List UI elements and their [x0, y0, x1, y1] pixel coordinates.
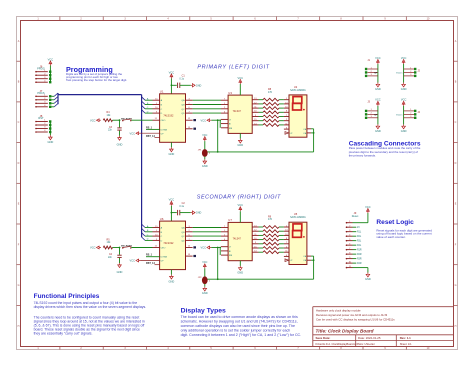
svg-text:RST_14: RST_14 — [146, 262, 155, 265]
svg-text:RS_1: RS_1 — [146, 254, 153, 257]
resistor pull-up body — [103, 246, 112, 249]
svg-text:0.1u: 0.1u — [179, 78, 184, 81]
svg-text:GND: GND — [202, 164, 208, 168]
svg-text:R3R: R3R — [357, 259, 362, 261]
svg-text:GND: GND — [375, 129, 381, 133]
ground below capacitor — [118, 263, 122, 267]
U6 left pins A-D — [153, 227, 160, 229]
svg-text:2: 2 — [410, 71, 411, 73]
power VCC above J2 — [402, 60, 405, 65]
svg-text:Rev: 1.1: Rev: 1.1 — [400, 336, 411, 340]
svg-text:Hardware only clock display mo: Hardware only clock display module — [316, 308, 361, 312]
J9 pin 10 net R4R — [347, 262, 353, 264]
svg-text:VCC: VCC — [238, 203, 244, 207]
svg-text:VCC: VCC — [90, 118, 96, 122]
ground below J3 — [376, 124, 380, 128]
svg-text:RBI: RBI — [229, 255, 233, 257]
wire junction to capacitor C1 — [171, 84, 176, 86]
U3 segment output pins — [252, 99, 258, 101]
svg-text:C: C — [455, 121, 457, 124]
display U2 pins — [284, 99, 289, 101]
seven segment display U2 — [289, 95, 307, 137]
svg-text:U3: U3 — [228, 91, 232, 95]
wire U5 CA pins to return — [311, 255, 314, 257]
svg-text:VCC: VCC — [365, 205, 371, 209]
svg-text:3: 3 — [371, 74, 372, 76]
junction blanking net — [217, 119, 219, 121]
svg-text:common cathode displays can al: common cathode displays can also be used… — [181, 324, 295, 328]
U1 lower left pins with net labels — [146, 128, 160, 130]
svg-text:VCC: VCC — [90, 246, 96, 250]
svg-text:CEO: CEO — [161, 120, 166, 122]
U6 pin 11 count input — [153, 247, 160, 249]
svg-text:11: 11 — [349, 266, 351, 268]
border grid ticks top/bottom — [59, 17, 61, 21]
svg-text:GND: GND — [169, 279, 175, 283]
svg-text:Date: 2022-01-25: Date: 2022-01-25 — [358, 336, 381, 340]
wire J7 pads to bus entries — [51, 95, 54, 97]
wire junction down to jumper net — [217, 120, 219, 152]
junction step net — [119, 119, 121, 121]
U1 left pins A-D — [153, 99, 160, 101]
junction return and blanking net — [217, 151, 219, 153]
svg-text:C: C — [18, 121, 20, 124]
svg-text:Display Types: Display Types — [181, 308, 226, 315]
svg-text:only additional operation is t: only additional operation is to set the … — [181, 328, 291, 332]
wire capacitor C2 to GND flag — [180, 212, 191, 214]
svg-text:GND: GND — [117, 143, 123, 147]
wire JP2 to GND — [204, 284, 206, 287]
svg-text:GND: GND — [375, 87, 381, 91]
svg-text:CEO: CEO — [161, 248, 166, 250]
svg-text:VCC: VCC — [375, 56, 381, 60]
svg-text:VCC: VCC — [401, 98, 407, 102]
svg-text:Reset Logic: Reset Logic — [376, 219, 414, 226]
svg-text:D: D — [18, 162, 20, 165]
svg-text:VCC: VCC — [202, 261, 207, 264]
svg-text:2: 2 — [410, 113, 411, 115]
wire switch to U6 pin 11 — [131, 247, 152, 249]
svg-text:3: 3 — [349, 230, 350, 232]
svg-text:QD: QD — [181, 113, 185, 115]
svg-text:3: 3 — [410, 116, 411, 118]
svg-text:RST: RST — [38, 116, 44, 120]
wire linking U7 blanking pins — [219, 247, 221, 255]
wire VCC to U1 pin 5 — [170, 79, 172, 94]
wire linking U3 blanking pins — [219, 119, 221, 127]
wire resistor to junction — [113, 119, 120, 121]
U7 ground pin — [239, 261, 241, 266]
svg-text:Save Date:: Save Date: — [316, 336, 331, 340]
U6 right pins QA-QD — [186, 227, 193, 229]
svg-text:U7: U7 — [228, 218, 232, 222]
capacitor C2 0.1u — [177, 210, 179, 215]
svg-text:QC: QC — [181, 236, 185, 238]
svg-text:GND: GND — [196, 212, 202, 215]
svg-text:RST_14: RST_14 — [146, 135, 155, 138]
svg-text:H: H — [455, 325, 457, 328]
U3 lamp-test blanking pins — [221, 118, 228, 120]
bus horizontal main — [58, 94, 142, 96]
svg-text:1: 1 — [371, 109, 372, 111]
wire VCC to J6 pads — [49, 66, 51, 83]
svg-text:74LS192: 74LS192 — [163, 242, 174, 245]
svg-text:Can be used with CC displays b: Can be used with CC displays by swapping… — [316, 318, 395, 322]
svg-text:GND: GND — [202, 291, 208, 295]
wire resistor to junction — [113, 247, 120, 249]
bus entries to U6 inputs — [142, 224, 145, 227]
junction CA net — [313, 132, 315, 134]
svg-text:Extern: Extern — [396, 71, 403, 74]
wire VCC to U3 — [239, 84, 241, 95]
svg-text:U6: U6 — [160, 217, 164, 221]
wire U2 CA pins to return — [311, 128, 314, 130]
power VCC above U6 — [170, 201, 173, 206]
U5 digit 8 graphic — [293, 224, 302, 237]
svg-text:Functional Principles: Functional Principles — [34, 293, 100, 300]
wire J9 bottom pin to GND — [353, 267, 368, 269]
svg-text:R4L: R4L — [357, 245, 362, 247]
svg-text:8: 8 — [349, 252, 350, 254]
wire CA return to jumper JP1 — [207, 151, 313, 153]
ground below JP2 — [203, 287, 207, 291]
svg-text:GND: GND — [169, 152, 175, 156]
wire JP1 to GND — [204, 157, 206, 160]
svg-text:5: 5 — [349, 239, 350, 241]
wire switch to U1 pin 11 — [131, 119, 152, 121]
ground below capacitor — [118, 136, 122, 140]
svg-text:1: 1 — [410, 67, 411, 69]
svg-text:R1R: R1R — [357, 250, 362, 252]
counter IC U1 74LS192 — [160, 94, 186, 143]
power VCC above U1 — [170, 74, 173, 79]
wire CA return to jumper JP2 — [207, 278, 313, 280]
svg-text:VCC: VCC — [401, 56, 407, 60]
svg-text:Size: USLetter: Size: USLetter — [358, 342, 375, 346]
svg-text:SA05-11SRWA: SA05-11SRWA — [290, 89, 306, 92]
U6 lower left pins with net labels — [146, 256, 160, 258]
counter IC U6 74LS192 — [160, 221, 186, 270]
ground below J1 — [376, 83, 380, 87]
capacitor C1 0.1u — [177, 83, 179, 88]
svg-text:they are essentially "carry ou: they are essentially "carry out" signals… — [34, 332, 93, 336]
svg-text:470: 470 — [268, 91, 273, 94]
solder jumper JP1 — [203, 137, 206, 142]
svg-text:R2L: R2L — [357, 236, 362, 238]
svg-text:VCC: VCC — [169, 198, 175, 202]
svg-text:VCC: VCC — [375, 98, 381, 102]
power VCC for J6 — [49, 61, 52, 66]
power VCC above U7 — [239, 207, 242, 212]
svg-text:GND: GND — [237, 271, 243, 275]
svg-text:display drivers which then sho: display drivers which then show the valu… — [34, 305, 147, 309]
wire VCC to U6 pin 5 — [170, 206, 172, 221]
svg-text:SECONDARY (RIGHT) DIGIT: SECONDARY (RIGHT) DIGIT — [197, 195, 281, 201]
wire bus entries to U6 pins A-D — [145, 227, 153, 229]
wire capacitor C1 to GND flag — [180, 84, 191, 86]
U7 segment output pins — [252, 226, 258, 228]
U7 left input pins — [221, 227, 228, 229]
svg-text:GND: GND — [196, 84, 202, 87]
U5 lamp test arrow pin — [285, 259, 289, 262]
svg-text:1: 1 — [410, 109, 411, 111]
svg-text:3: 3 — [410, 74, 411, 76]
svg-text:0.1u: 0.1u — [179, 205, 184, 208]
svg-text:QD: QD — [181, 240, 185, 242]
power VCC above J3 — [377, 101, 380, 106]
power VCC above J4 — [402, 101, 405, 106]
bus entries to U1 inputs — [142, 97, 145, 100]
svg-text:22n: 22n — [108, 256, 113, 259]
ground below J9 — [366, 273, 370, 277]
junction step net — [119, 247, 121, 249]
svg-text:H: H — [18, 325, 20, 328]
J9 pin 2 net 23 — [347, 226, 353, 228]
svg-text:74LS47: 74LS47 — [233, 110, 242, 113]
svg-text:7: 7 — [349, 248, 350, 250]
svg-text:VCC: VCC — [130, 131, 136, 135]
wire bus entries to U1 pins A-D — [145, 99, 153, 101]
svg-text:4: 4 — [349, 234, 350, 236]
svg-text:470: 470 — [268, 218, 273, 221]
U7 lamp-test blanking pins — [221, 246, 228, 248]
svg-text:10: 10 — [349, 261, 351, 263]
svg-text:GND: GND — [237, 143, 243, 147]
U1 pin 11 count input — [153, 119, 160, 121]
svg-text:Reset: Reset — [352, 215, 359, 218]
svg-text:9: 9 — [349, 257, 350, 259]
svg-text:QB: QB — [181, 105, 185, 107]
svg-text:VCC: VCC — [238, 76, 244, 80]
svg-text:G: G — [455, 284, 457, 287]
wire VCC to J9 pin 1 — [367, 213, 369, 223]
J9 pin 9 net R3R — [347, 258, 353, 260]
svg-text:6: 6 — [349, 243, 350, 245]
svg-text:GND: GND — [48, 140, 54, 144]
J9 pin 3 net R1L — [347, 231, 353, 233]
ground below J2 — [402, 83, 406, 87]
ground below J8 — [49, 135, 53, 139]
svg-text:VCC: VCC — [130, 259, 136, 263]
svg-text:Title: Clock Display Board: Title: Clock Display Board — [316, 328, 374, 333]
junction blanking net — [217, 247, 219, 249]
svg-text:GND: GND — [401, 87, 407, 91]
resistor pull-up body — [103, 119, 112, 122]
seven segment display U5 — [289, 222, 307, 264]
power flag GND right of C1 — [191, 84, 195, 87]
svg-text:Extern: Extern — [396, 113, 403, 116]
junction return and blanking net — [217, 278, 219, 280]
svg-text:U5: U5 — [294, 212, 298, 216]
svg-text:3: 3 — [371, 116, 372, 118]
svg-text:RS_1: RS_1 — [146, 126, 153, 129]
U1 ground pin — [170, 142, 172, 147]
svg-text:22n: 22n — [108, 129, 113, 132]
svg-text:74LS47: 74LS47 — [233, 238, 242, 241]
title block frame — [313, 306, 454, 308]
U3 left input pins — [221, 99, 228, 101]
U6 ground pin — [170, 270, 172, 275]
svg-text:G: G — [18, 284, 20, 287]
svg-text:1: 1 — [371, 67, 372, 69]
svg-text:VCC: VCC — [202, 134, 207, 137]
svg-text:QA: QA — [181, 99, 185, 102]
svg-text:DOWN: DOWN — [161, 129, 168, 131]
svg-text:the primary forwards.: the primary forwards. — [349, 153, 376, 157]
svg-text:value of each counter.: value of each counter. — [376, 235, 406, 239]
U1 carry borrow pins with net labels — [186, 119, 193, 121]
svg-text:digit. Connecting it between 1: digit. Connecting it between 1 and 2 ("H… — [181, 333, 302, 337]
svg-text:2: 2 — [371, 113, 372, 115]
svg-text:R4R: R4R — [357, 263, 362, 265]
svg-text:1: 1 — [349, 221, 350, 223]
J9 pin 8 net R2R — [347, 253, 353, 255]
svg-text:QC: QC — [181, 109, 185, 111]
junction CA net — [313, 259, 315, 261]
display U5 pins — [284, 226, 289, 228]
svg-text:VCC: VCC — [201, 118, 207, 122]
wires U6 outputs to U7 inputs — [193, 227, 221, 229]
svg-text:2: 2 — [349, 225, 350, 227]
bus vertical main — [141, 95, 143, 238]
J9 pin 6 net R4L — [347, 244, 353, 246]
svg-text:2: 2 — [371, 71, 372, 73]
junction at U6 VCC — [171, 212, 173, 214]
power VCC above U3 — [239, 80, 242, 85]
svg-text:schematic. However by swapping: schematic. However by swapping out U1 an… — [181, 320, 298, 324]
J9 pin 5 net R3L — [347, 240, 353, 242]
wire J8 pads to GND — [49, 122, 51, 136]
U6 carry borrow pins with net labels — [186, 247, 193, 249]
wire junction down to jumper net — [217, 248, 219, 280]
U3 ground pin — [239, 133, 241, 138]
wire J6 pad bus vertical — [49, 72, 51, 83]
bus entries from J7 — [54, 93, 58, 96]
U2 common anode pins — [307, 128, 311, 130]
wire VCC rail J4 — [403, 106, 405, 125]
svg-text:R1L: R1L — [357, 232, 362, 234]
wires U1 outputs to U3 inputs — [193, 99, 221, 101]
svg-text:SA05-11SRWA: SA05-11SRWA — [290, 216, 306, 219]
svg-text:RBI: RBI — [229, 128, 233, 130]
svg-text:PRIMARY (LEFT) DIGIT: PRIMARY (LEFT) DIGIT — [197, 64, 269, 70]
power VCC above J9 — [367, 209, 370, 214]
svg-text:VCC: VCC — [169, 70, 175, 74]
bus PRCS vertical at J7 — [57, 93, 59, 104]
ground below J4 — [402, 124, 406, 128]
svg-text:GND: GND — [401, 129, 407, 133]
power VCC above J1 — [377, 60, 380, 65]
svg-text:U2: U2 — [294, 85, 298, 89]
wire junction to capacitor C2 — [171, 212, 176, 214]
svg-text:VCC: VCC — [201, 246, 207, 250]
wire VCC rail J2 — [403, 64, 405, 83]
border grid ticks left/right — [17, 60, 21, 62]
svg-text:GND: GND — [365, 277, 371, 281]
wire VCC rail J3 — [377, 106, 379, 125]
svg-text:Sheet: 1/1: Sheet: 1/1 — [400, 342, 412, 346]
solder jumper JP2 — [203, 264, 206, 269]
svg-text:D: D — [455, 162, 457, 165]
U1 right pins QA-QD — [186, 99, 193, 101]
J9 pin 7 net R1R — [347, 249, 353, 251]
svg-text:The board can be used to drive: The board can be used to drive common an… — [181, 315, 298, 319]
U5 common anode pins — [307, 255, 311, 257]
U2 lamp test arrow pin — [285, 132, 289, 135]
svg-text:QA: QA — [181, 227, 185, 230]
svg-text:Receives signal and power via: Receives signal and power via J2/J4 and … — [316, 313, 388, 317]
J9 pin 11 net 12 — [347, 267, 353, 269]
svg-text:U1: U1 — [160, 90, 164, 94]
svg-text:GND: GND — [117, 270, 123, 274]
svg-text:KiCad E.D.A. ClockDisplayBoar: KiCad E.D.A. ClockDisplayBoard.sch — [316, 342, 359, 346]
svg-text:R2R: R2R — [357, 254, 362, 256]
wire VCC rail J1 — [377, 64, 379, 83]
svg-text:DOWN: DOWN — [161, 257, 168, 259]
power flag GND right of C2 — [191, 211, 195, 214]
wire VCC to U7 — [239, 211, 241, 222]
svg-text:Test pressing the step button: Test pressing the step button for the ta… — [66, 78, 127, 82]
svg-text:VCC: VCC — [48, 57, 54, 61]
J9 pin 1 net 13 — [347, 222, 353, 224]
svg-text:R3L: R3L — [357, 241, 362, 243]
U2 digit 8 graphic — [293, 97, 302, 110]
ground below JP1 — [203, 159, 207, 163]
J9 pin 4 net R2L — [347, 235, 353, 237]
decoder IC U7 74LS47 — [228, 222, 252, 260]
decoder IC U3 74LS47 — [228, 95, 252, 133]
junction at U1 VCC — [171, 84, 173, 86]
svg-text:74LS192: 74LS192 — [163, 115, 174, 118]
svg-text:QB: QB — [181, 232, 185, 234]
